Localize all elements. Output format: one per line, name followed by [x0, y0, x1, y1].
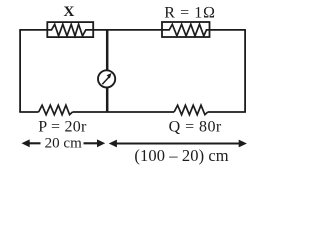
wire: bottom left segment — [19, 111, 38, 113]
resistor X box — [47, 22, 93, 37]
resistor P zigzag — [39, 105, 73, 115]
galvanometer G — [98, 70, 115, 87]
wire: right vertical — [244, 30, 246, 112]
dimension arrow 20 cm left segment — [28, 142, 41, 144]
svg-text:R = 1Ω: R = 1Ω — [164, 5, 216, 22]
wire: left vertical — [19, 30, 21, 112]
svg-text:(100 – 20) cm: (100 – 20) cm — [134, 146, 228, 165]
resistor X zigzag — [47, 24, 93, 36]
resistor Q zigzag — [174, 105, 208, 115]
dimension arrow (100-20) cm — [116, 142, 241, 144]
wire: top right segment — [210, 29, 246, 31]
dimension arrow 20 cm right segment — [84, 142, 98, 144]
svg-text:20 cm: 20 cm — [45, 135, 82, 151]
wire: galvanometer branch (thick vertical) — [106, 30, 109, 112]
svg-text:P = 20r: P = 20r — [38, 119, 87, 136]
resistor R1 box — [162, 22, 210, 37]
resistor R1 zigzag — [162, 24, 210, 36]
wire: top left segment — [19, 29, 47, 31]
wire: bottom right segment — [208, 111, 246, 113]
svg-text:X: X — [63, 4, 74, 20]
wire: bottom middle segment — [73, 111, 175, 113]
wire: top middle segment — [93, 29, 162, 31]
svg-text:Q = 80r: Q = 80r — [169, 119, 222, 136]
